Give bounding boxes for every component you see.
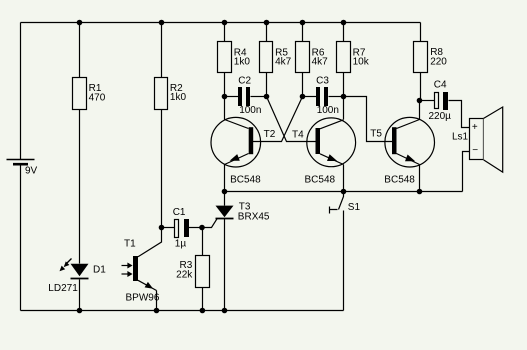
wire T2 emitter down <box>224 165 226 192</box>
wire R3 top <box>202 228 204 256</box>
svg-text:BC548: BC548 <box>230 174 261 185</box>
junction node dots <box>77 20 423 314</box>
svg-text:4k7: 4k7 <box>312 57 329 68</box>
node T4 emitter S1 <box>341 189 347 195</box>
svg-text:220µ: 220µ <box>429 111 452 122</box>
svg-text:1k0: 1k0 <box>234 57 251 68</box>
svg-text:1k0: 1k0 <box>170 92 187 103</box>
wire R7 bottom <box>343 73 345 97</box>
wire R7 top <box>343 23 345 42</box>
wire R4 bottom to node <box>224 73 226 97</box>
svg-text:C4: C4 <box>434 80 447 91</box>
wire C3 left <box>303 96 317 98</box>
capacitor C1 electrolytic <box>173 207 189 250</box>
svg-text:BPW96: BPW96 <box>126 293 160 304</box>
wire R1 to D1 <box>79 110 81 264</box>
node R6 C3 coupling <box>300 94 306 100</box>
svg-text:C3: C3 <box>316 75 329 86</box>
svg-text:+: + <box>472 122 478 133</box>
node top rail R7 <box>341 20 347 26</box>
resistor R4 <box>218 42 251 73</box>
node bottom rail R3 <box>200 308 206 314</box>
capacitor C3 <box>316 75 339 116</box>
wire top rail <box>21 22 421 24</box>
capacitor C2 <box>238 75 261 116</box>
wire C2 right <box>251 96 267 98</box>
diode D1 LD271 <box>48 259 106 295</box>
wire R5 top <box>266 23 268 42</box>
resistor R6 <box>296 42 329 73</box>
svg-text:470: 470 <box>89 92 106 103</box>
svg-text:22k: 22k <box>176 269 193 280</box>
node R5 C2 coupling <box>264 94 270 100</box>
wire coupling C2 node to T4 base diagonal <box>267 97 316 142</box>
node top rail R4 <box>222 20 228 26</box>
wire coupling C3 node to T2 base diagonal <box>253 97 303 142</box>
wire node to T5 collector <box>419 101 421 120</box>
wire D1 to bottom rail <box>79 280 81 311</box>
wire T3 anode <box>224 192 226 206</box>
transistor T2 BC548 (mirrored) <box>211 117 276 185</box>
svg-text:100n: 100n <box>239 105 261 116</box>
node R8 C4 T5 <box>417 98 423 104</box>
wire node to T2 collector <box>224 97 226 120</box>
wire R4 top <box>224 23 226 42</box>
wire emitter rail <box>225 191 463 193</box>
wire R6 top <box>302 23 304 42</box>
wire bottom rail <box>21 310 344 312</box>
phototransistor T1 BPW96 <box>122 239 160 304</box>
wire T3 cathode to bottom rail <box>224 219 226 311</box>
capacitor C4 electrolytic <box>429 80 452 123</box>
wire R2 top <box>161 23 163 78</box>
wire T4 emitter down <box>343 165 345 192</box>
wire C1 left <box>162 227 175 229</box>
transistor T5 BC548 <box>370 117 434 185</box>
svg-text:BC548: BC548 <box>384 174 415 185</box>
svg-text:LD271: LD271 <box>48 283 78 294</box>
wire R8 top corner <box>420 23 422 42</box>
svg-text:Ls1: Ls1 <box>452 132 469 143</box>
wire R5 bottom <box>266 73 268 97</box>
wire R8 bottom <box>420 73 422 101</box>
battery BT 9V <box>7 160 38 177</box>
node bottom rail D1 <box>77 308 83 314</box>
node R7 C3 T4 <box>341 94 347 100</box>
wire T5 base from R7 node <box>344 97 393 142</box>
wire speaker minus to emitter rail <box>463 152 470 192</box>
svg-text:C1: C1 <box>173 207 186 218</box>
wire T3 gate <box>203 219 218 228</box>
node top rail R1 <box>77 20 83 26</box>
wire C4 left <box>420 100 435 102</box>
wire C1 right <box>189 227 203 229</box>
resistor R3 <box>176 256 209 288</box>
wire T1 collector <box>138 228 162 257</box>
wire R1 top <box>79 23 81 78</box>
node R4 C2 T2 <box>222 94 228 100</box>
node top rail R5 <box>264 20 270 26</box>
wire R3 bottom <box>202 288 204 311</box>
wire T4 collector up <box>343 97 345 120</box>
switch S1 contact bar <box>330 207 338 214</box>
node C1 R3 gate <box>199 225 205 231</box>
wire battery top <box>20 23 22 160</box>
svg-text:T2: T2 <box>264 129 276 140</box>
svg-text:220: 220 <box>430 56 447 67</box>
svg-text:1µ: 1µ <box>175 239 187 250</box>
wire C3 right <box>329 96 344 98</box>
wire C2 left <box>225 96 239 98</box>
svg-text:T1: T1 <box>124 239 136 250</box>
svg-text:100n: 100n <box>317 105 339 116</box>
wire battery bottom <box>20 165 22 311</box>
resistor R2 <box>155 78 187 110</box>
node bottom rail T1 <box>154 308 160 314</box>
svg-text:T5: T5 <box>370 128 382 139</box>
resistor R5 <box>260 42 292 73</box>
wire T5 emitter down <box>419 165 421 192</box>
svg-text:−: − <box>472 145 478 156</box>
node R2 C1 T1 <box>159 225 165 231</box>
svg-text:BRX45: BRX45 <box>238 211 270 222</box>
node T5 emitter <box>417 189 423 195</box>
resistor R1 <box>73 78 106 110</box>
node top rail R6 <box>300 20 306 26</box>
svg-text:S1: S1 <box>348 202 361 213</box>
wire R2 to C1 node <box>161 110 163 228</box>
svg-text:C2: C2 <box>238 75 251 86</box>
transistor T4 BC548 <box>292 118 356 185</box>
wire S1 to bottom rail <box>343 211 345 311</box>
switch S1 stub and blade <box>339 192 344 210</box>
resistor R8 <box>414 42 448 73</box>
wire C4 right to speaker plus <box>449 101 470 128</box>
node top rail R2 <box>159 20 165 26</box>
wire T1 emitter down <box>156 291 158 311</box>
svg-text:4k7: 4k7 <box>275 57 292 68</box>
resistor R7 <box>337 42 370 73</box>
wire R6 bottom <box>302 73 304 97</box>
svg-text:10k: 10k <box>353 57 370 68</box>
svg-text:BC548: BC548 <box>305 174 336 185</box>
node T2 emitter T3 <box>222 189 228 195</box>
svg-text:9V: 9V <box>25 166 38 177</box>
speaker Ls1 <box>452 107 503 172</box>
svg-text:D1: D1 <box>93 265 106 276</box>
thyristor T3 BRX45 <box>216 202 270 223</box>
svg-text:T4: T4 <box>292 129 304 140</box>
node bottom rail T3 <box>222 308 228 314</box>
